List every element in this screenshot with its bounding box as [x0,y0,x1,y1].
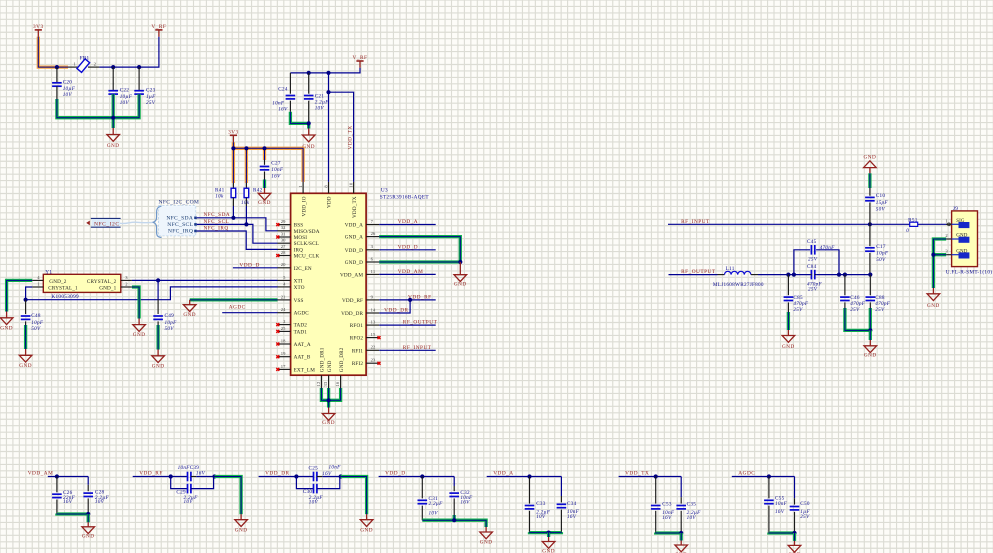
svg-text:16V: 16V [322,471,332,477]
svg-text:RFI1: RFI1 [352,348,364,354]
svg-text:21: 21 [281,294,286,299]
svg-text:NFC_SDA: NFC_SDA [204,212,231,218]
svg-text:GND_1: GND_1 [99,285,116,291]
svg-text:24: 24 [281,307,286,312]
svg-text:GND: GND [258,200,271,206]
svg-text:470pF: 470pF [850,300,865,307]
svg-text:50V: 50V [165,326,175,332]
svg-text:VDD_AM: VDD_AM [340,272,363,278]
svg-text:VDD_TX: VDD_TX [352,196,358,218]
svg-text:GND: GND [327,360,333,372]
svg-text:16V: 16V [775,509,785,515]
svg-text:GND: GND [782,344,795,350]
svg-text:10k: 10k [241,200,250,206]
svg-text:18: 18 [281,338,286,343]
svg-text:23: 23 [371,358,376,363]
svg-text:NFC_SDA: NFC_SDA [166,216,193,222]
svg-text:10V: 10V [63,92,73,98]
svg-text:33: 33 [323,381,328,386]
svg-text:VDD_RF: VDD_RF [139,471,163,477]
svg-text:470pF: 470pF [875,300,890,307]
svg-text:GND: GND [0,326,13,332]
svg-text:IRQ: IRQ [294,247,303,253]
svg-text:16V: 16V [662,515,672,521]
svg-text:VDD_DR: VDD_DR [341,311,363,317]
svg-text:C34: C34 [567,501,577,507]
svg-text:16V: 16V [278,106,288,112]
svg-text:VDD_D: VDD_D [385,471,405,477]
svg-text:25V: 25V [793,307,803,313]
svg-text:GND_D: GND_D [345,260,363,266]
svg-text:U3: U3 [381,188,388,194]
svg-text:C84: C84 [807,264,817,270]
svg-text:AGDC: AGDC [229,305,246,311]
svg-text:BSS: BSS [294,223,304,229]
svg-text:RFO2: RFO2 [350,336,364,342]
svg-text:C33: C33 [536,501,546,507]
svg-text:XTO: XTO [294,285,305,291]
svg-text:MCU_CLK: MCU_CLK [294,254,320,260]
svg-text:16V: 16V [271,173,281,179]
svg-text:J9: J9 [953,206,958,212]
svg-text:VDD_TX: VDD_TX [347,125,353,149]
svg-text:10nF: 10nF [329,464,342,470]
svg-text:RFO1: RFO1 [350,323,364,329]
svg-text:VDD_A: VDD_A [398,219,418,225]
svg-text:25V: 25V [850,307,860,313]
svg-text:50V: 50V [31,326,41,332]
svg-text:VDD: VDD [327,196,333,208]
svg-text:RF_INPUT: RF_INPUT [681,219,710,225]
svg-text:22: 22 [371,345,376,350]
svg-text:NFC_I2C: NFC_I2C [94,222,120,228]
svg-text:CRYSTAL_1: CRYSTAL_1 [48,285,78,291]
svg-text:U.FL-R-SMT-1(10): U.FL-R-SMT-1(10) [946,268,993,275]
svg-text:RF_INPUT: RF_INPUT [403,345,432,351]
svg-text:GND: GND [360,528,373,534]
svg-text:25V: 25V [146,100,156,106]
svg-text:C45: C45 [807,239,817,245]
svg-text:NFC_SCL: NFC_SCL [167,222,193,228]
svg-text:GND: GND [927,303,940,309]
svg-text:C22: C22 [120,88,130,94]
svg-text:10nF: 10nF [178,465,191,471]
svg-text:470pF: 470pF [793,300,808,307]
svg-text:VDD_RF: VDD_RF [408,294,432,300]
svg-text:25V: 25V [808,257,818,263]
svg-text:16V: 16V [567,514,577,520]
svg-text:13: 13 [371,320,376,325]
svg-text:GND: GND [183,312,196,318]
svg-text:10V: 10V [687,515,697,521]
svg-text:10V: 10V [429,510,439,516]
svg-text:GND: GND [322,420,335,426]
svg-text:MISO/SDA: MISO/SDA [294,229,320,235]
svg-text:C49: C49 [165,313,175,319]
svg-text:20: 20 [281,262,286,267]
svg-text:R51: R51 [908,217,918,223]
svg-text:17: 17 [281,364,286,369]
svg-text:GND: GND [107,143,120,149]
svg-text:C10: C10 [876,193,886,199]
svg-text:50V: 50V [876,257,886,263]
svg-text:AGDC: AGDC [738,471,755,477]
svg-text:TAD2: TAD2 [294,323,308,329]
svg-text:L11: L11 [726,266,735,272]
svg-text:C27: C27 [271,161,281,167]
svg-text:10nF: 10nF [775,501,788,507]
svg-text:GND_DR2: GND_DR2 [339,347,345,372]
svg-text:10V: 10V [536,514,546,520]
svg-text:16: 16 [335,381,340,386]
svg-text:RFI2: RFI2 [352,361,364,367]
svg-text:25V: 25V [808,287,818,293]
svg-text:32: 32 [281,225,286,230]
svg-text:VDD_D: VDD_D [398,244,418,250]
svg-text:50V: 50V [876,206,886,212]
svg-text:GND: GND [454,281,467,287]
svg-text:25V: 25V [875,307,885,313]
svg-text:C17: C17 [876,244,886,250]
svg-text:GND: GND [480,540,493,546]
svg-text:28: 28 [281,250,286,255]
svg-text:NFC_SCL: NFC_SCL [204,219,230,225]
svg-text:10: 10 [348,182,353,187]
svg-text:10V: 10V [309,500,319,506]
svg-text:25: 25 [281,326,286,331]
svg-text:14: 14 [371,307,376,312]
svg-text:GND_2: GND_2 [49,279,66,285]
svg-text:RF_OUTPUT: RF_OUTPUT [681,269,716,275]
svg-text:2.2µF: 2.2µF [429,501,444,507]
svg-text:GND: GND [19,363,32,369]
svg-text:C88: C88 [875,295,885,301]
svg-text:31: 31 [281,231,286,236]
svg-text:GND: GND [82,533,95,539]
svg-text:C53: C53 [662,502,672,508]
svg-text:I2C_EN: I2C_EN [294,266,312,272]
svg-text:GND: GND [864,155,877,161]
svg-text:VDD_AM: VDD_AM [28,471,54,477]
svg-text:12: 12 [316,381,321,386]
svg-text:10pF: 10pF [876,251,889,257]
svg-text:C23: C23 [146,88,156,94]
svg-text:15pF: 15pF [876,200,889,206]
svg-text:GND: GND [864,353,877,359]
svg-text:VDD_A: VDD_A [345,223,363,229]
svg-text:10V: 10V [120,100,130,106]
svg-text:VDD_AM: VDD_AM [398,269,424,275]
svg-text:AGDC: AGDC [294,311,310,317]
svg-text:11: 11 [371,269,376,274]
svg-text:SCLK/SCL: SCLK/SCL [294,241,319,247]
svg-text:NFC_I2C_COM: NFC_I2C_COM [159,200,200,206]
svg-text:XTI: XTI [294,278,303,284]
svg-text:GND: GND [235,528,248,534]
svg-text:10V: 10V [184,499,194,505]
svg-text:C46: C46 [850,295,860,301]
svg-text:VDD_D: VDD_D [239,262,259,268]
svg-text:0: 0 [906,228,909,234]
svg-text:C50: C50 [800,501,810,507]
svg-text:AAT_A: AAT_A [294,342,311,348]
svg-text:GND: GND [152,364,165,370]
svg-text:VDD_D: VDD_D [345,248,363,254]
svg-text:FB1: FB1 [80,55,90,61]
svg-text:10V: 10V [95,499,105,505]
svg-text:GND_A: GND_A [345,235,363,241]
svg-text:EXT_LM: EXT_LM [294,367,316,373]
svg-text:C85: C85 [793,295,803,301]
svg-text:VDD_A: VDD_A [493,471,513,477]
svg-text:CRYSTAL_2: CRYSTAL_2 [87,279,117,285]
svg-text:26: 26 [371,231,376,236]
svg-text:C24: C24 [278,87,288,93]
svg-text:19: 19 [281,351,286,356]
svg-text:TAD1: TAD1 [294,329,308,335]
svg-text:10k: 10k [215,194,224,200]
svg-text:AAT_B: AAT_B [294,355,311,361]
svg-text:VSS: VSS [294,298,304,304]
svg-text:NFC_IRQ: NFC_IRQ [204,225,229,231]
svg-text:VDD_IO: VDD_IO [301,196,307,216]
svg-text:GND: GND [133,332,146,338]
svg-text:16V: 16V [460,500,470,506]
svg-text:MOSI: MOSI [294,235,308,241]
svg-text:C48: C48 [31,313,41,319]
svg-text:Y1: Y1 [45,269,52,275]
svg-text:VDD_RF: VDD_RF [342,298,363,304]
svg-text:VDD_DR: VDD_DR [384,308,408,314]
svg-text:15: 15 [371,332,376,337]
svg-text:C20: C20 [63,80,73,86]
svg-text:16V: 16V [63,499,73,505]
svg-text:C35: C35 [687,502,697,508]
svg-text:VDD_TX: VDD_TX [625,471,649,477]
svg-text:R42: R42 [253,188,263,194]
svg-text:RF_OUTPUT: RF_OUTPUT [403,320,438,326]
svg-text:30: 30 [281,238,286,243]
svg-text:GND: GND [542,548,555,553]
svg-text:27: 27 [281,244,286,249]
svg-text:MLJ1608WR27JF800: MLJ1608WR27JF800 [713,282,764,288]
svg-text:10V: 10V [315,106,325,112]
svg-text:ST25R3916B-AQET: ST25R3916B-AQET [380,194,430,200]
svg-text:R41: R41 [215,188,225,194]
svg-text:C25: C25 [309,466,319,472]
svg-text:25V: 25V [800,514,810,520]
svg-text:NFC_IRQ: NFC_IRQ [168,229,193,235]
svg-text:VDD_DR: VDD_DR [265,471,289,477]
svg-text:470nF: 470nF [820,244,835,251]
svg-text:GND_DR1: GND_DR1 [320,347,326,372]
svg-text:29: 29 [281,219,286,224]
svg-text:10nF: 10nF [271,167,284,173]
svg-text:16V: 16V [196,470,206,476]
